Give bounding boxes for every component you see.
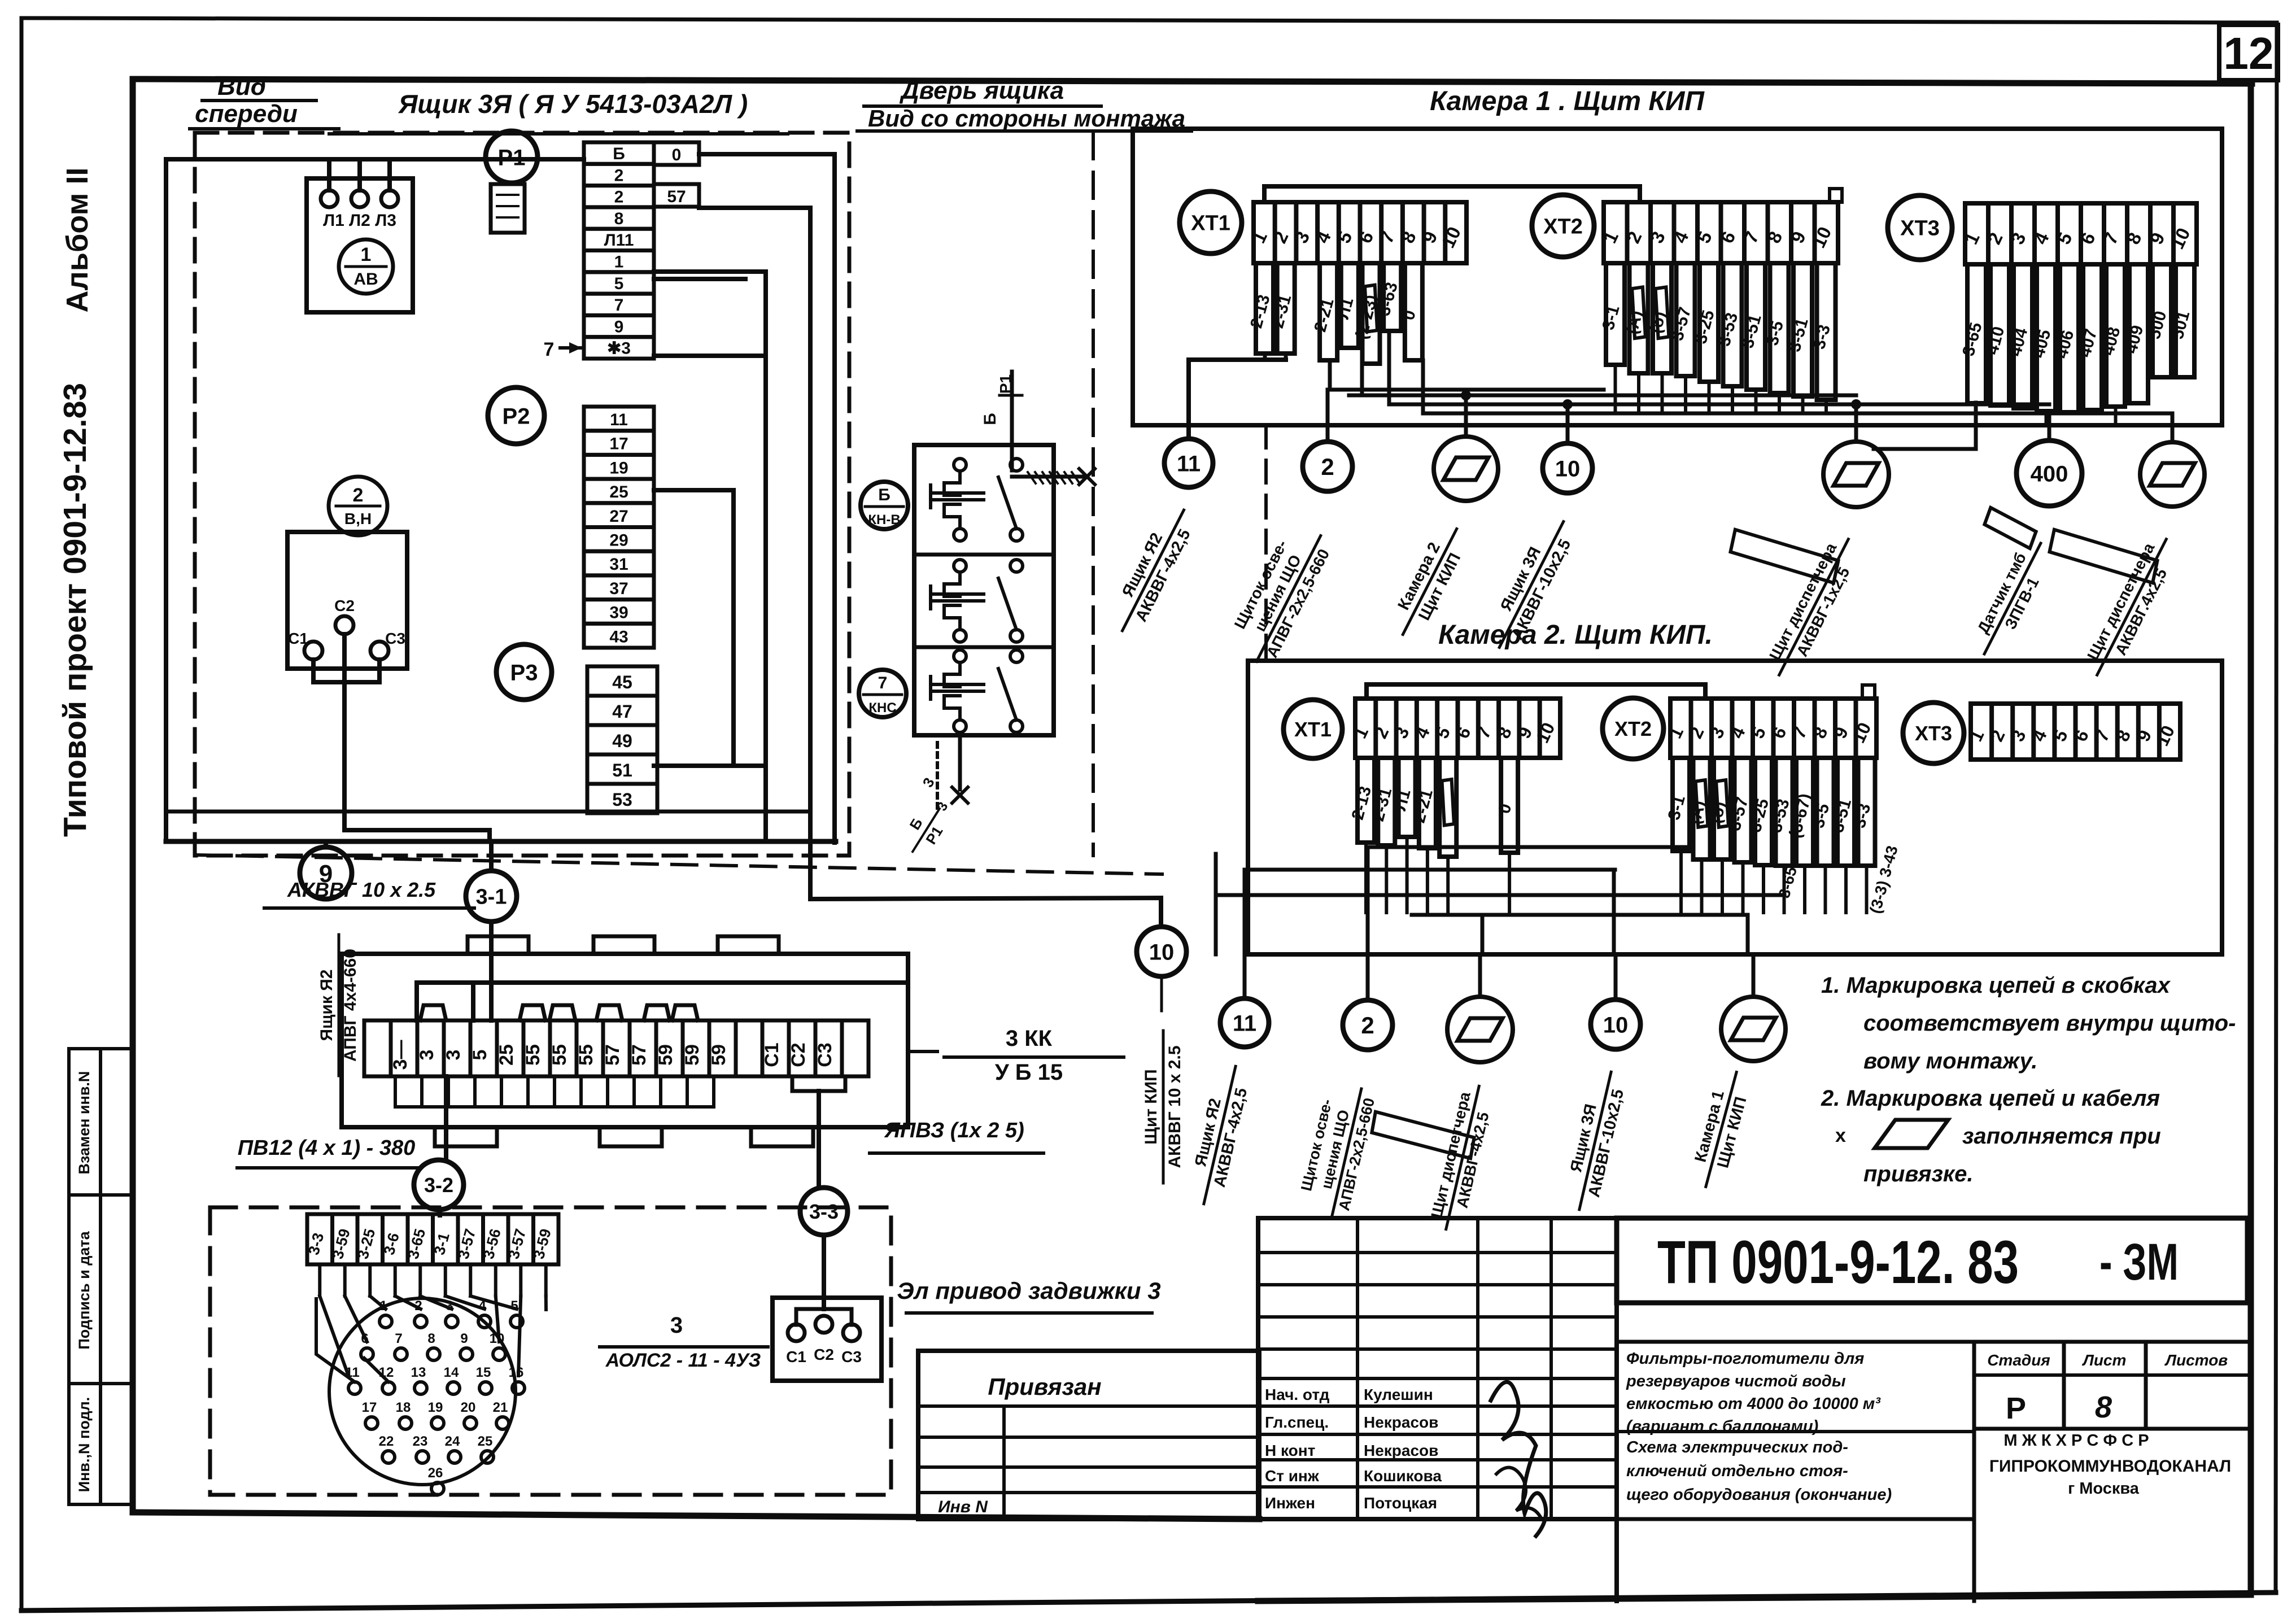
svg-text:2: 2 bbox=[614, 166, 624, 185]
svg-text:щего оборудования (окончание): щего оборудования (окончание) bbox=[1626, 1486, 1892, 1504]
svg-text:Р2: Р2 bbox=[503, 404, 530, 429]
svg-text:Альбом II: Альбом II bbox=[60, 167, 94, 312]
svg-text:ХТ3: ХТ3 bbox=[1915, 722, 1952, 745]
svg-text:КН-В: КН-В bbox=[868, 512, 900, 527]
svg-text:3—: 3— bbox=[390, 1040, 411, 1070]
svg-text:11: 11 bbox=[1233, 1011, 1256, 1036]
svg-text:25: 25 bbox=[478, 1434, 493, 1449]
svg-text:ПВ12 (4 х 1) - 380: ПВ12 (4 х 1) - 380 bbox=[238, 1136, 416, 1160]
svg-text:0: 0 bbox=[672, 146, 682, 164]
svg-text:Кулешин: Кулешин bbox=[1364, 1386, 1433, 1403]
svg-text:7: 7 bbox=[544, 339, 555, 360]
svg-text:Типовой проект 0901-9-12.83: Типовой проект 0901-9-12.83 bbox=[57, 383, 93, 837]
svg-text:Р3: Р3 bbox=[510, 660, 538, 685]
svg-text:Некрасов: Некрасов bbox=[1364, 1413, 1438, 1431]
svg-text:8: 8 bbox=[427, 1331, 435, 1346]
svg-text:2: 2 bbox=[614, 188, 624, 207]
svg-text:- ЗМ: - ЗМ bbox=[2099, 1233, 2179, 1291]
svg-text:Р1: Р1 bbox=[498, 145, 526, 170]
svg-text:Р: Р bbox=[2006, 1391, 2026, 1425]
svg-text:С2: С2 bbox=[814, 1346, 834, 1363]
svg-text:Б: Б bbox=[878, 486, 891, 504]
svg-text:37: 37 bbox=[609, 579, 628, 598]
svg-text:Гл.спец.: Гл.спец. bbox=[1265, 1413, 1329, 1431]
svg-text:59: 59 bbox=[682, 1044, 703, 1066]
svg-text:17: 17 bbox=[609, 435, 628, 453]
svg-text:вому монтажу.: вому монтажу. bbox=[1863, 1049, 2037, 1074]
svg-text:Вид: Вид bbox=[217, 73, 266, 101]
svg-text:2: 2 bbox=[353, 485, 364, 506]
svg-text:х: х bbox=[1835, 1125, 1846, 1146]
svg-text:8: 8 bbox=[2095, 1390, 2112, 1424]
svg-text:19: 19 bbox=[428, 1400, 443, 1415]
svg-text:55: 55 bbox=[575, 1044, 597, 1066]
svg-text:У Б 15: У Б 15 bbox=[995, 1060, 1063, 1085]
svg-text:1: 1 bbox=[614, 253, 624, 272]
svg-text:Л1 Л2 Л3: Л1 Л2 Л3 bbox=[323, 211, 396, 230]
svg-text:С3: С3 bbox=[814, 1042, 836, 1067]
svg-text:Кошикова: Кошикова bbox=[1364, 1467, 1442, 1485]
svg-text:55: 55 bbox=[522, 1044, 544, 1066]
svg-text:АОЛС2 - 11 - 4УЗ: АОЛС2 - 11 - 4УЗ bbox=[605, 1350, 761, 1371]
svg-text:25: 25 bbox=[609, 483, 628, 501]
svg-text:Инв.,N подл.: Инв.,N подл. bbox=[76, 1397, 93, 1493]
svg-text:13: 13 bbox=[411, 1365, 426, 1380]
svg-text:7: 7 bbox=[614, 296, 624, 315]
svg-text:соответствует внутри щито-: соответствует внутри щито- bbox=[1863, 1011, 2236, 1036]
svg-text:С2: С2 bbox=[788, 1042, 809, 1067]
svg-text:51: 51 bbox=[612, 760, 632, 780]
svg-text:5: 5 bbox=[614, 274, 624, 293]
svg-text:✱3: ✱3 bbox=[607, 339, 631, 358]
svg-text:3-1: 3-1 bbox=[476, 885, 507, 909]
svg-text:АКВВГ 10 х 2.5: АКВВГ 10 х 2.5 bbox=[1166, 1045, 1184, 1168]
svg-text:24: 24 bbox=[445, 1434, 460, 1449]
svg-text:57: 57 bbox=[602, 1044, 623, 1066]
svg-text:Б: Б bbox=[981, 413, 999, 425]
svg-text:привязке.: привязке. bbox=[1863, 1162, 1974, 1186]
svg-text:Эл привод задвижки 3: Эл привод задвижки 3 bbox=[897, 1277, 1160, 1304]
svg-text:М Ж К Х Р С Ф С Р: М Ж К Х Р С Ф С Р bbox=[2003, 1432, 2149, 1450]
svg-text:ХТ2: ХТ2 bbox=[1543, 215, 1583, 239]
svg-text:Взамен инв.N: Взамен инв.N bbox=[76, 1071, 93, 1175]
svg-text:3: 3 bbox=[416, 1050, 438, 1061]
svg-text:3-3: 3-3 bbox=[809, 1200, 839, 1223]
svg-text:20: 20 bbox=[461, 1400, 476, 1415]
svg-text:ГИПРОКОММУНВОДОКАНАЛ: ГИПРОКОММУНВОДОКАНАЛ bbox=[1989, 1457, 2231, 1476]
svg-text:С1: С1 bbox=[786, 1348, 806, 1365]
svg-text:спереди: спереди bbox=[195, 100, 298, 128]
svg-text:43: 43 bbox=[609, 627, 628, 646]
svg-text:ХТ2: ХТ2 bbox=[1614, 717, 1652, 740]
svg-text:7: 7 bbox=[395, 1331, 402, 1346]
svg-text:Инв N: Инв N bbox=[938, 1498, 988, 1516]
svg-text:ХТ1: ХТ1 bbox=[1191, 212, 1230, 235]
svg-text:31: 31 bbox=[609, 555, 628, 574]
svg-text:Щит КИП: Щит КИП bbox=[1142, 1069, 1160, 1144]
svg-text:10: 10 bbox=[1555, 456, 1581, 481]
svg-text:55: 55 bbox=[549, 1044, 570, 1066]
svg-text:400: 400 bbox=[2031, 461, 2068, 486]
svg-text:57: 57 bbox=[628, 1044, 650, 1066]
svg-text:ключений отдельно стоя-: ключений отдельно стоя- bbox=[1626, 1462, 1848, 1480]
svg-text:Потоцкая: Потоцкая bbox=[1364, 1494, 1437, 1512]
svg-text:Подпись и дата: Подпись и дата bbox=[76, 1231, 93, 1349]
svg-text:15: 15 bbox=[476, 1365, 491, 1380]
svg-text:3: 3 bbox=[443, 1050, 464, 1061]
svg-text:59: 59 bbox=[708, 1044, 730, 1066]
svg-text:29: 29 bbox=[609, 531, 628, 550]
svg-text:Фильтры-поглотители для: Фильтры-поглотители для bbox=[1626, 1350, 1864, 1368]
svg-text:АКВВГ 10 х 2.5: АКВВГ 10 х 2.5 bbox=[287, 878, 436, 901]
svg-text:(вариант с баллонами): (вариант с баллонами) bbox=[1626, 1417, 1818, 1436]
svg-text:25: 25 bbox=[496, 1044, 517, 1066]
svg-text:9: 9 bbox=[614, 317, 624, 336]
svg-text:Б: Б bbox=[613, 145, 625, 163]
svg-text:Некрасов: Некрасов bbox=[1364, 1442, 1438, 1459]
svg-text:3: 3 bbox=[670, 1313, 683, 1338]
svg-text:1: 1 bbox=[361, 244, 372, 265]
svg-text:Стадия: Стадия bbox=[1987, 1351, 2050, 1369]
svg-text:59: 59 bbox=[655, 1044, 676, 1066]
svg-text:21: 21 bbox=[493, 1400, 508, 1415]
svg-text:ХТ3: ХТ3 bbox=[1900, 217, 1940, 241]
svg-text:10: 10 bbox=[1603, 1013, 1629, 1037]
svg-text:49: 49 bbox=[612, 731, 632, 751]
svg-text:ЯПВЗ (1х 2 5): ЯПВЗ (1х 2 5) bbox=[884, 1119, 1024, 1142]
svg-text:Камера 2. Щит КИП.: Камера 2. Щит КИП. bbox=[1438, 620, 1713, 650]
svg-text:11: 11 bbox=[1177, 451, 1201, 476]
svg-text:резервуаров чистой воды: резервуаров чистой воды bbox=[1626, 1372, 1846, 1390]
svg-text:3-2: 3-2 bbox=[424, 1173, 453, 1197]
svg-text:2. Маркировка цепей и кабе: 2. Маркировка цепей и кабеля bbox=[1821, 1086, 2160, 1111]
svg-text:Л11: Л11 bbox=[604, 231, 634, 250]
svg-text:Ящик 3Я ( Я У 5413-03А2Л ): Ящик 3Я ( Я У 5413-03А2Л ) bbox=[398, 89, 748, 119]
svg-text:КНС: КНС bbox=[868, 700, 896, 715]
svg-text:Привязан: Привязан bbox=[988, 1373, 1101, 1400]
svg-text:заполняется при: заполняется при bbox=[1962, 1124, 2161, 1149]
svg-text:Н конт: Н конт bbox=[1265, 1442, 1315, 1459]
svg-text:С3: С3 bbox=[385, 630, 405, 647]
svg-text:57: 57 bbox=[667, 187, 686, 206]
svg-text:23: 23 bbox=[413, 1434, 428, 1449]
svg-text:9: 9 bbox=[460, 1331, 468, 1346]
svg-text:г Москва: г Москва bbox=[2068, 1480, 2140, 1498]
svg-text:Ящик Я2: Ящик Я2 bbox=[317, 970, 336, 1041]
svg-text:Инжен: Инжен bbox=[1265, 1494, 1315, 1512]
svg-text:47: 47 bbox=[612, 701, 632, 722]
svg-text:45: 45 bbox=[612, 672, 632, 692]
svg-text:Р1: Р1 bbox=[997, 374, 1014, 394]
svg-text:8: 8 bbox=[614, 210, 624, 228]
svg-text:3 КК: 3 КК bbox=[1006, 1026, 1053, 1051]
svg-text:12: 12 bbox=[2224, 28, 2274, 78]
svg-text:18: 18 bbox=[396, 1400, 411, 1415]
svg-text:АВ: АВ bbox=[353, 270, 378, 289]
svg-text:17: 17 bbox=[362, 1400, 377, 1415]
svg-text:19: 19 bbox=[609, 459, 628, 477]
svg-text:16: 16 bbox=[509, 1365, 524, 1380]
svg-text:Схема электрических под-: Схема электрических под- bbox=[1626, 1438, 1848, 1456]
svg-text:Нач. отд: Нач. отд bbox=[1265, 1386, 1330, 1403]
svg-text:Лист: Лист bbox=[2082, 1351, 2127, 1369]
svg-text:39: 39 bbox=[609, 604, 628, 622]
svg-text:22: 22 bbox=[379, 1434, 394, 1449]
svg-text:2: 2 bbox=[1321, 453, 1334, 480]
svg-text:5: 5 bbox=[469, 1050, 491, 1061]
svg-text:7: 7 bbox=[878, 674, 888, 692]
svg-text:1. Маркировка цепей в скоб: 1. Маркировка цепей в скобках bbox=[1821, 973, 2171, 998]
svg-text:14: 14 bbox=[444, 1365, 459, 1380]
svg-text:Камера 1 . Щит КИП: Камера 1 . Щит КИП bbox=[1430, 86, 1705, 116]
svg-text:Листов: Листов bbox=[2164, 1351, 2228, 1369]
svg-text:27: 27 bbox=[609, 507, 628, 526]
svg-text:11: 11 bbox=[610, 411, 628, 429]
svg-text:Ст инж: Ст инж bbox=[1265, 1467, 1320, 1485]
svg-text:10: 10 bbox=[1149, 940, 1175, 965]
svg-text:емкостью от 4000 до 10000 м³: емкостью от 4000 до 10000 м³ bbox=[1626, 1395, 1881, 1413]
svg-text:С1: С1 bbox=[288, 630, 308, 647]
svg-text:ТП 0901-9-12. 83: ТП 0901-9-12. 83 bbox=[1657, 1228, 2019, 1296]
svg-text:В,Н: В,Н bbox=[344, 510, 372, 527]
svg-text:2: 2 bbox=[1361, 1012, 1374, 1039]
svg-text:53: 53 bbox=[612, 789, 632, 810]
svg-text:С1: С1 bbox=[761, 1042, 783, 1067]
svg-text:С3: С3 bbox=[841, 1348, 862, 1365]
svg-text:С2: С2 bbox=[334, 597, 355, 614]
svg-text:26: 26 bbox=[428, 1465, 443, 1481]
svg-text:ХТ1: ХТ1 bbox=[1294, 718, 1332, 741]
svg-text:Дверь ящика: Дверь ящика bbox=[899, 77, 1064, 104]
